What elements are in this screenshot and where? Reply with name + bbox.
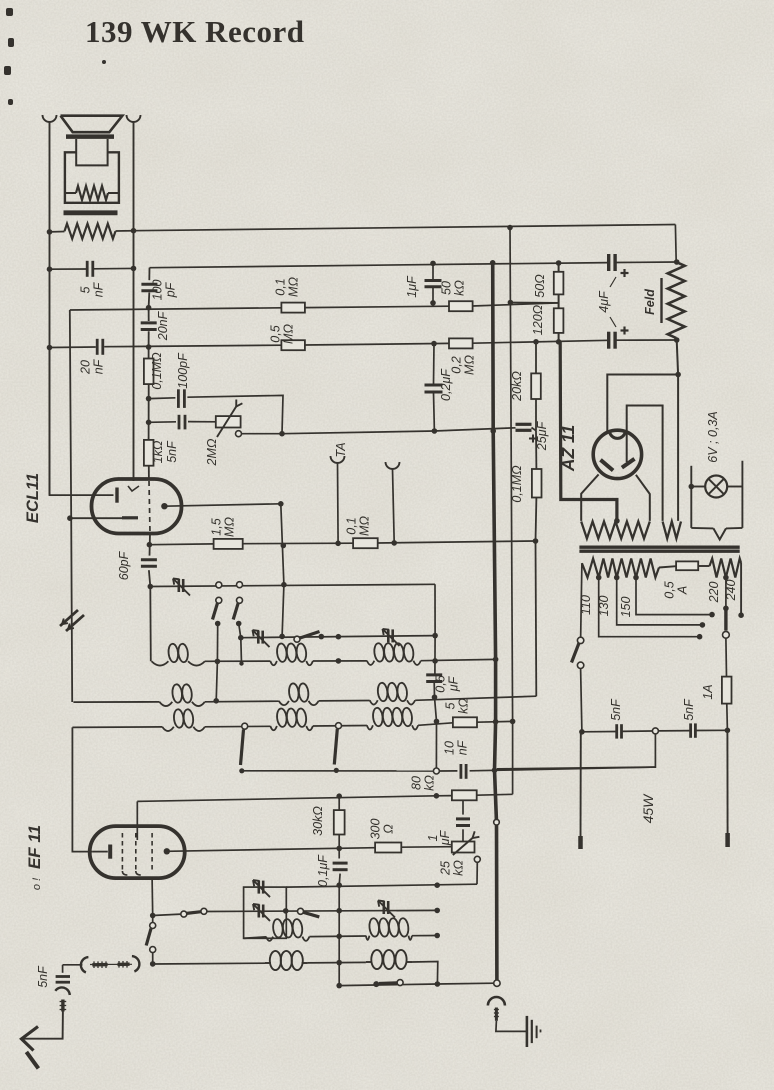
label 45W	[640, 793, 656, 824]
wire rowB b	[412, 962, 438, 985]
fuse 1A	[722, 677, 732, 704]
svg-text:20: 20	[79, 360, 93, 375]
label 80kOhm	[410, 775, 437, 791]
wire bus6 corner down	[434, 584, 436, 635]
label 100pF branch	[176, 352, 190, 389]
tube EF11 envelope	[90, 826, 185, 878]
svg-text:139 WK Record: 139 WK Record	[85, 14, 304, 49]
switch S4 pivot	[242, 723, 248, 729]
inductor row1 coil3	[367, 643, 421, 665]
wire thin vertical x510	[510, 228, 513, 722]
node AZ11 anode1 junction	[675, 372, 681, 378]
antenna plug pin left	[92, 961, 107, 968]
label 1kOhm	[151, 440, 165, 463]
node x282 bus7	[279, 634, 285, 640]
svg-text:100: 100	[151, 280, 165, 301]
wire row3 left	[72, 726, 162, 729]
svg-text:0,1μF: 0,1μF	[316, 854, 330, 887]
wire bus1 speaker..x133	[50, 231, 134, 232]
tube ECL11 grid bar	[115, 488, 118, 503]
antenna arrow tail stroke	[26, 1052, 38, 1069]
label Feld	[643, 278, 662, 323]
speaker voice coil bar	[66, 134, 114, 139]
switch S8 bottom contact	[150, 947, 156, 953]
svg-text:5: 5	[444, 702, 458, 709]
wire row3 corner down to cathode	[72, 727, 92, 851]
wire AZ11 anode2	[627, 406, 663, 521]
wire rowC to ground stem	[437, 982, 494, 985]
node top 50ohm	[556, 260, 562, 266]
node bus7-x338	[336, 634, 342, 640]
antenna series arc	[55, 987, 70, 995]
inductor row3 coil3	[367, 707, 418, 729]
node rowA-x437	[434, 933, 440, 939]
transformer core	[579, 547, 739, 551]
wire rowA a	[309, 935, 366, 938]
label 0,1uF	[316, 854, 330, 887]
fuse 0,5A	[676, 561, 698, 570]
wire 5nF row b	[658, 729, 727, 732]
label 20nF left	[79, 358, 106, 375]
svg-text:20nF: 20nF	[156, 310, 170, 341]
resistor 0,1MOhm (bus2b)	[281, 303, 305, 313]
node bus9-x437	[434, 908, 440, 914]
svg-text:25μF: 25μF	[535, 420, 549, 451]
svg-text:TA: TA	[334, 442, 348, 457]
trimmer capacitor osc 1	[173, 579, 190, 596]
label 0,5A	[663, 581, 690, 598]
capacitor 5nF antenna	[56, 977, 70, 983]
node 5nF row left	[579, 729, 585, 735]
wire 20k bottom	[535, 399, 537, 431]
wire bus9 switch line	[153, 911, 244, 915]
capacitor 20nF (chain)	[141, 323, 157, 330]
svg-text:kΩ: kΩ	[452, 860, 466, 876]
capacitor 100pF (chain)	[141, 284, 157, 291]
label 100pF chain	[151, 280, 178, 301]
inductor rowB coil2 (oval)	[366, 950, 412, 969]
svg-text:kΩ: kΩ	[457, 698, 471, 714]
plus sign 25uF	[529, 435, 537, 443]
terminal TA arc 1	[331, 456, 345, 463]
trimmer capacitor osc 3	[383, 629, 400, 646]
switch S3 lever	[300, 632, 320, 639]
switch S2 pivot	[237, 597, 243, 603]
trimmer capacitor IF mid	[253, 904, 270, 921]
svg-text:2MΩ: 2MΩ	[205, 438, 219, 466]
resistor 0,5MOhm (bus3)	[281, 340, 305, 350]
node bus8-x339	[336, 882, 342, 888]
label 50Ohm	[533, 274, 547, 298]
wire anode row b	[401, 846, 452, 849]
svg-text:50: 50	[440, 281, 454, 295]
speaker terminal hook left	[43, 115, 57, 122]
antenna plug pin right	[118, 961, 130, 968]
label 20kOhm	[510, 371, 524, 402]
svg-text:20kΩ: 20kΩ	[510, 371, 524, 402]
capacitor 4uF lower (electrolytic, in bus3)	[609, 332, 615, 349]
wire 30k chain	[338, 796, 340, 858]
wire x339 long vertical	[338, 885, 340, 985]
switch S9 contact	[201, 908, 207, 914]
tube EF11 anode dot	[164, 848, 170, 854]
wire to ground	[496, 1021, 527, 1032]
label 5nF branch	[165, 440, 179, 463]
switch S7 contact	[397, 980, 403, 986]
node ant-x152 a	[150, 913, 156, 919]
switch S1 lever	[213, 603, 218, 620]
capacitor 5nF mains right	[691, 723, 696, 737]
wire 0,1M chain	[535, 431, 538, 541]
capacitor 0,5uF	[426, 675, 442, 682]
speaker former	[76, 139, 107, 165]
transformer primary winding left	[582, 559, 659, 578]
node row5-x338	[336, 793, 342, 799]
svg-text:220: 220	[707, 582, 721, 604]
label 0,5uF	[434, 675, 461, 692]
wire bus4	[242, 428, 536, 434]
inductor row1 coil1	[152, 643, 205, 665]
tube EF11 grid1 dashed	[122, 833, 127, 875]
wire heavy vertical x493	[493, 263, 497, 980]
svg-text:5nF: 5nF	[165, 440, 179, 463]
resistor (speaker series) on bus1	[65, 224, 116, 239]
node lamp left	[689, 484, 695, 490]
svg-text:60pF: 60pF	[117, 550, 131, 580]
wire bus7	[241, 636, 435, 638]
capacitor 5nF (speaker)	[87, 261, 93, 277]
wire branch 100pF	[149, 397, 176, 400]
tube ECL11 anode dot	[161, 503, 167, 509]
wire wiper down to bus8	[476, 862, 478, 884]
switch S5 lever	[334, 729, 337, 765]
wire row2 c	[415, 696, 536, 700]
label 130	[597, 596, 611, 617]
label 60pF	[117, 550, 131, 580]
resistor 0,1MOhm (bus5)	[353, 538, 378, 548]
svg-text:MΩ: MΩ	[223, 517, 237, 537]
node bus5-x338	[335, 541, 341, 547]
wire x435 vertical b	[434, 682, 436, 768]
switch S7 lever	[379, 981, 397, 985]
node anode line end	[278, 501, 284, 507]
label 5kOhm	[444, 698, 471, 714]
switch S6 pivot	[298, 908, 304, 914]
wire row5	[137, 794, 512, 801]
capacitor 10nF (row4)	[461, 764, 466, 779]
svg-text:AZ 11: AZ 11	[558, 425, 578, 472]
ground symbol	[527, 1016, 541, 1047]
wire rowB	[154, 962, 265, 965]
speaker hum-buck coil (zigzag)	[65, 186, 119, 200]
resistor 0,1MOhm (chain vertical)	[144, 359, 154, 385]
wire S2 down	[239, 624, 242, 664]
label 0,5MOhm	[269, 324, 296, 344]
antenna plug pin bottom	[60, 1000, 67, 1012]
wire x435 vertical	[434, 636, 436, 675]
label 0,1MOhm bus5	[345, 516, 372, 536]
label 0,1MOhm vert	[510, 465, 524, 503]
tube AZ11 envelope	[593, 430, 641, 478]
lamp 6V 0,3A	[705, 476, 727, 498]
tube AZ11 plate left	[601, 460, 614, 471]
trimmer capacitor IF top	[253, 880, 270, 897]
label 1uF	[405, 275, 419, 298]
resistor 80kOhm (row5)	[452, 790, 477, 800]
wire chain 20nF-R	[148, 331, 150, 358]
tube EF11 grid3 dashed	[151, 833, 153, 871]
wire selector to fuse 1A	[725, 638, 728, 676]
wire 5nF row	[582, 730, 653, 733]
svg-text:Feld: Feld	[643, 289, 657, 315]
svg-text:μF: μF	[447, 675, 461, 692]
node heater center tap	[614, 518, 620, 524]
svg-text:A: A	[676, 586, 690, 595]
antenna arrow head	[22, 1027, 39, 1051]
wire branch 5nF	[149, 421, 176, 424]
node bus3-x434	[431, 341, 437, 347]
inductor row2 coil2	[279, 683, 319, 705]
wire ECL11 grid lead left	[49, 231, 51, 233]
node bus3-x558	[556, 339, 562, 345]
node bus4-x493	[490, 428, 496, 434]
svg-text:100pF: 100pF	[176, 352, 190, 389]
wire rowA b	[412, 935, 437, 937]
wire tap 220	[725, 578, 727, 609]
wire branch1 to corner	[187, 395, 283, 433]
wire rowB a	[308, 961, 366, 964]
resistor 50Ohm (vertical)	[554, 272, 564, 295]
label 4uF	[597, 277, 616, 327]
wire bus1 corner down to Feld	[674, 225, 677, 263]
svg-text:MΩ: MΩ	[358, 516, 372, 536]
inductor rowA coil2	[366, 918, 412, 940]
wire x536 down to row2	[535, 541, 538, 696]
wire chain corner	[148, 268, 150, 281]
svg-text:MΩ: MΩ	[282, 324, 296, 344]
node tap 110	[596, 575, 602, 581]
wire switch to 5nF row	[581, 669, 582, 732]
node 5nF mid socket	[652, 728, 658, 734]
tube EF11 grid2 dashed	[136, 833, 141, 875]
plus sign lower 4uF	[621, 327, 629, 335]
node S5 bottom	[334, 768, 339, 773]
svg-text:0,1MΩ: 0,1MΩ	[150, 352, 164, 390]
svg-text:5: 5	[79, 286, 93, 293]
wire Feld bottom to heater right	[677, 340, 678, 521]
wire row2 left	[73, 701, 159, 703]
svg-text:0,5: 0,5	[434, 675, 448, 692]
wire fuse1A to cord	[726, 704, 729, 731]
wire AZ11 cathode left	[581, 474, 598, 521]
wire row3 d	[477, 720, 513, 723]
wire bus5	[149, 541, 535, 545]
label 25uF	[535, 420, 549, 451]
wire lamp left	[690, 466, 692, 528]
node row1-x338	[336, 658, 342, 664]
label 10nF	[443, 739, 470, 755]
wire row3 c	[418, 723, 453, 726]
wire EF11 pin to switch	[152, 916, 154, 923]
svg-text:MΩ: MΩ	[287, 277, 301, 297]
switch row4 socket	[433, 768, 439, 774]
wire ECL11 cathode	[70, 517, 122, 519]
wire row3 a	[205, 725, 270, 728]
potentiometer 2M wiper	[236, 431, 242, 437]
plug circle on heavy vertical	[494, 819, 500, 825]
wire S1 down	[216, 624, 218, 701]
capacitor 60pF	[141, 560, 157, 567]
wire row3 b	[313, 725, 367, 728]
inductor rowB coil1 (oval)	[265, 951, 308, 970]
node S2 bottom	[236, 621, 242, 627]
svg-text:nF: nF	[92, 358, 106, 374]
node bus2b-x510	[508, 300, 514, 306]
node bus4-x282	[279, 431, 285, 437]
label 300Ohm	[369, 819, 396, 840]
resistor 1,5MOhm (bus5)	[214, 539, 243, 549]
node bus8-x437	[434, 882, 440, 888]
wire bus2b (y310..303)	[70, 303, 559, 310]
terminal TA arc 2	[386, 462, 400, 469]
node ant-x152 b	[150, 961, 156, 967]
svg-text:1μF: 1μF	[405, 275, 419, 298]
tube ECL11 check mark	[128, 486, 139, 491]
potentiometer 2MOhm	[216, 416, 241, 427]
wire bus9	[244, 909, 438, 912]
svg-text:45W: 45W	[640, 793, 656, 824]
svg-text:150: 150	[619, 597, 633, 618]
wire row1 b	[313, 660, 367, 662]
wire 120ohm to bus3	[558, 333, 560, 342]
label 1uF EF	[426, 829, 452, 846]
node x133-y268	[131, 266, 137, 272]
wire speaker left lead	[49, 122, 51, 495]
resistor 30kOhm (vertical)	[334, 810, 345, 834]
label 120Ohm	[531, 304, 545, 335]
wire fuse to right winding	[698, 565, 709, 567]
node rowA-x339	[336, 934, 342, 940]
resistor 1kOhm (chain vertical)	[144, 440, 154, 466]
capacitor 0,1uF (30k chain)	[333, 863, 348, 870]
potentiometer 25kOhm	[452, 842, 475, 853]
node tap110 end	[697, 634, 703, 640]
label 0,1MOhm chain	[150, 352, 164, 390]
switch S8 top contact	[150, 923, 156, 929]
svg-text:Ω: Ω	[382, 824, 396, 834]
inductor row3 coil1	[162, 709, 205, 731]
label 0,2uF	[439, 368, 453, 401]
node bus2-x433	[430, 261, 436, 267]
wire 0,2uF chain	[433, 344, 436, 431]
node bus3-right	[674, 337, 680, 343]
node tap130 end	[700, 622, 706, 628]
wire S8 to antenna line	[152, 953, 154, 964]
wire AZ11 cathode right	[636, 475, 650, 521]
mains switch upper contact	[577, 637, 583, 643]
node tap 220	[723, 575, 729, 581]
label 1,5MOhm	[210, 517, 237, 537]
wire EF11 anode line	[167, 848, 375, 852]
field coil Feld (zigzag)	[668, 262, 685, 338]
svg-text:120Ω: 120Ω	[531, 304, 545, 335]
inductor row1 coil2	[270, 643, 313, 665]
svg-text:ECL11: ECL11	[24, 473, 42, 523]
wire lamp bottom	[691, 527, 742, 530]
capacitor 4uF upper (electrolytic, in bus2)	[609, 254, 615, 271]
wire lamp horizontal	[691, 486, 742, 488]
ground plug arc	[488, 997, 505, 1006]
wire antenna down	[23, 1012, 63, 1039]
bandfilter box	[244, 887, 287, 938]
node bus7 left	[238, 635, 244, 641]
inductor row2 coil1	[159, 684, 204, 706]
label 5nF	[79, 281, 106, 297]
potentiometer 25k arrow	[453, 831, 480, 855]
wire 1uF efchain top	[462, 801, 464, 815]
wire 50ohm chain top	[558, 263, 560, 272]
node bus2-x493	[490, 260, 496, 266]
wire bus6	[150, 584, 435, 586]
svg-text:kΩ: kΩ	[453, 280, 467, 296]
switch S8 lever	[146, 929, 151, 946]
wire rowA left	[244, 937, 266, 938]
node x282 bus6	[281, 582, 287, 588]
wire 1uF efchain bottom	[462, 829, 464, 841]
svg-text:25: 25	[439, 861, 453, 876]
paper specks	[4, 8, 106, 105]
wire ECL11 anode line	[164, 504, 280, 506]
capacitor 25uF (electrolytic)	[516, 424, 532, 430]
node vertA cathode	[67, 515, 73, 521]
node bus7 right	[432, 633, 438, 639]
wire chain 100pF-20nF	[148, 293, 151, 322]
node bus1-x133	[131, 228, 137, 234]
wire bus3	[50, 340, 677, 348]
node row1-x217	[215, 659, 221, 665]
node anoderow-x339	[336, 846, 342, 852]
label 240	[724, 580, 738, 602]
label 25kOhm	[439, 860, 466, 876]
wire vertical A lower	[71, 701, 73, 703]
switch contact S1a	[216, 582, 222, 588]
wire 20k chain	[535, 342, 537, 374]
node x536 bus5	[533, 538, 539, 544]
potentiometer 25k wiper	[474, 856, 480, 862]
node chain-422	[146, 420, 152, 426]
capacitor 20nF (left, bus3)	[97, 339, 103, 355]
wire bus2 (y267..262)	[150, 262, 677, 268]
wire lamp right	[741, 461, 743, 528]
node bus2b-x148	[146, 305, 152, 311]
label 1A	[701, 684, 715, 699]
svg-text:MΩ: MΩ	[463, 355, 477, 375]
speaker terminal hook right	[127, 115, 141, 122]
node row4-x495	[492, 767, 498, 773]
label 6V 0,3A	[706, 411, 720, 462]
svg-text:0,5: 0,5	[269, 325, 283, 342]
antenna plug arc left	[81, 957, 88, 972]
switch S9 lever	[187, 912, 202, 914]
resistor 5kOhm (row3)	[453, 717, 477, 727]
node tap150 end	[709, 612, 715, 618]
svg-text:1kΩ: 1kΩ	[151, 440, 165, 463]
svg-text:0,5: 0,5	[663, 581, 677, 598]
node x49-y269	[47, 266, 53, 272]
switch S6 lever	[303, 912, 319, 917]
node cord right	[725, 728, 731, 734]
node bus5 start	[147, 542, 153, 548]
